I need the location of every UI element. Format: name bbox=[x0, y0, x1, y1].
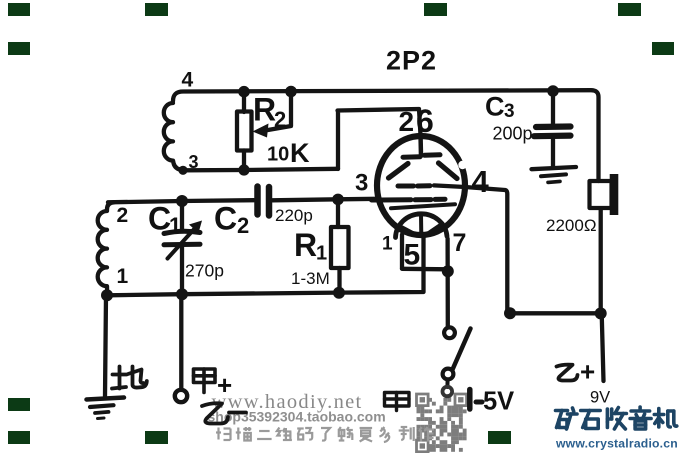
svg-text:3: 3 bbox=[189, 152, 199, 172]
label minus B dash bbox=[229, 411, 246, 415]
svg-text:www.crystalradio.cn: www.crystalradio.cn bbox=[555, 437, 678, 451]
node bus R1 bbox=[333, 287, 345, 299]
svg-text:2P2: 2P2 bbox=[386, 46, 437, 76]
svg-text:270p: 270p bbox=[185, 261, 224, 281]
wire filament connector bbox=[402, 267, 448, 272]
svg-text:3: 3 bbox=[355, 170, 368, 197]
switch top contact bbox=[444, 327, 455, 338]
tube envelope gap bbox=[458, 161, 466, 169]
tube 2P2 envelope bbox=[377, 136, 465, 235]
tube plate wing left bbox=[389, 164, 409, 179]
node coil L2 pin3 corner bbox=[178, 166, 187, 175]
wire R2 top lead bbox=[242, 92, 246, 113]
capacitor C3 plates bbox=[536, 123, 571, 130]
svg-text:1: 1 bbox=[169, 213, 181, 238]
node grid R1 bbox=[332, 194, 344, 206]
capacitor C1 trimmer arrow bbox=[168, 227, 197, 259]
capacitor C1 plates bbox=[164, 231, 200, 233]
resistor R1 body bbox=[331, 227, 349, 268]
brand char 石 bbox=[581, 411, 601, 429]
svg-text:200p: 200p bbox=[493, 124, 533, 144]
svg-text:C: C bbox=[148, 201, 171, 237]
switch bottom lead bbox=[445, 380, 449, 387]
svg-text:5: 5 bbox=[404, 239, 421, 272]
tube top electrode bar bbox=[403, 154, 420, 159]
wire grid line C2 to tube bbox=[273, 199, 378, 201]
svg-text:9V: 9V bbox=[590, 389, 610, 407]
wire B+ terminal lead bbox=[602, 314, 604, 382]
watermark char 维 bbox=[277, 428, 292, 441]
svg-text:220p: 220p bbox=[275, 206, 313, 225]
wire bottom of feedback loop bbox=[183, 169, 338, 171]
brand char 音 bbox=[630, 407, 651, 429]
wire bottom bus bbox=[107, 236, 424, 295]
watermark QR code bbox=[417, 394, 467, 452]
watermark char 制 bbox=[399, 427, 414, 441]
watermark char 作 bbox=[419, 427, 434, 442]
svg-text:2: 2 bbox=[117, 204, 129, 227]
watermark char 二 bbox=[257, 431, 272, 439]
watermark char 解 bbox=[339, 427, 353, 441]
svg-text:7: 7 bbox=[453, 229, 467, 257]
label di ground char bbox=[112, 367, 147, 389]
ground earth bars bbox=[87, 398, 125, 400]
svg-text:C: C bbox=[485, 92, 505, 122]
wire R1 top lead bbox=[336, 200, 340, 228]
wire plate pin4 out of tube bbox=[434, 185, 507, 313]
wire riser to tube top bbox=[338, 109, 421, 169]
svg-text:2: 2 bbox=[237, 213, 249, 238]
watermark char 更 bbox=[360, 428, 373, 442]
wire phone bottom lead bbox=[599, 209, 603, 314]
svg-text:1-3M: 1-3M bbox=[291, 269, 330, 288]
tube filament dome bbox=[396, 214, 448, 238]
node R2 bottom bbox=[238, 164, 249, 175]
resistor R2 body bbox=[237, 112, 252, 151]
coil L1 tuning winding bbox=[98, 202, 114, 294]
svg-text:1: 1 bbox=[382, 234, 393, 255]
tube grid row 1 dashes bbox=[398, 184, 414, 189]
wire bottom right bus bbox=[508, 311, 601, 315]
labels group bbox=[117, 46, 611, 416]
svg-text:3: 3 bbox=[504, 101, 515, 122]
phone 2200 thick bar bbox=[610, 174, 619, 215]
capacitor C3 bottom lead bbox=[551, 140, 555, 167]
hanzi group placeholder bbox=[112, 365, 578, 424]
R2 wiper arm from top bus bbox=[265, 92, 291, 131]
tube beam plate line bbox=[391, 204, 455, 208]
label yi B-plus char bbox=[557, 365, 578, 381]
node C3 top bbox=[547, 85, 559, 97]
watermark char 描 bbox=[236, 427, 252, 441]
svg-text:5V: 5V bbox=[483, 388, 514, 416]
node R2 top bbox=[238, 86, 250, 98]
wire ground lead bbox=[105, 295, 106, 396]
svg-text:R: R bbox=[294, 227, 317, 263]
watermark char 扫 bbox=[216, 428, 231, 441]
node filament switch bbox=[442, 265, 454, 277]
svg-text:C: C bbox=[214, 201, 237, 237]
battery terminal blob bbox=[443, 387, 453, 397]
node phone bus bbox=[595, 307, 607, 319]
tube top electrode lead bbox=[418, 134, 423, 156]
svg-text:2200Ω: 2200Ω bbox=[546, 216, 597, 235]
wire C1 bottom lead bbox=[180, 247, 184, 295]
svg-text:4: 4 bbox=[472, 164, 490, 199]
svg-text:K: K bbox=[290, 138, 310, 168]
wire switch riser bbox=[445, 239, 449, 327]
svg-text:4: 4 bbox=[182, 69, 194, 92]
switch bottom contact bbox=[443, 369, 454, 380]
watermark hanzi line bbox=[216, 427, 434, 442]
node bus ground bbox=[101, 289, 113, 301]
node bus C1 bbox=[176, 288, 188, 300]
watermark char 了 bbox=[321, 428, 330, 441]
node wiper top bbox=[285, 86, 297, 98]
wire R1 bottom lead bbox=[337, 268, 341, 292]
svg-text:2: 2 bbox=[399, 106, 415, 137]
label jia battery char bbox=[385, 393, 410, 411]
tube plate wing right bbox=[439, 163, 458, 179]
wire R2 bottom lead bbox=[242, 151, 246, 171]
switch lever bbox=[453, 329, 471, 370]
node tuned top C1 bbox=[176, 195, 188, 207]
coil L2 feedback winding bbox=[164, 103, 183, 170]
svg-text:10: 10 bbox=[267, 144, 289, 166]
capacitor C3 top lead bbox=[551, 91, 555, 124]
brand char 收 bbox=[607, 408, 626, 430]
svg-text:1: 1 bbox=[117, 265, 129, 288]
watermark char 码 bbox=[297, 428, 312, 440]
phone 2200 box bbox=[590, 181, 612, 208]
label jia A-plus char bbox=[194, 369, 216, 393]
capacitor C2 plates bbox=[254, 187, 261, 215]
ground C3 bars bbox=[532, 167, 577, 169]
R2 wiper arrowhead bbox=[253, 124, 269, 138]
terminal A+ circle bbox=[175, 390, 187, 402]
watermark char 多 bbox=[379, 427, 389, 442]
svg-text:R: R bbox=[253, 92, 276, 128]
capacitor C1 top lead bbox=[180, 201, 184, 230]
tube filament spokes bbox=[419, 215, 423, 237]
label yi B-minus char bbox=[202, 403, 228, 423]
wire A+ terminal lead bbox=[179, 295, 183, 390]
wire tube pin left lead bbox=[400, 235, 404, 269]
node plate bus bbox=[504, 307, 516, 319]
tube grid row 2 dashes bbox=[372, 197, 412, 202]
brand char 矿 bbox=[556, 408, 578, 429]
brand char 机 bbox=[654, 409, 677, 428]
svg-text:+: + bbox=[217, 370, 232, 400]
svg-text:6: 6 bbox=[416, 103, 434, 139]
svg-text:2: 2 bbox=[274, 107, 286, 132]
svg-text:+: + bbox=[580, 357, 595, 387]
svg-text:1: 1 bbox=[316, 243, 327, 265]
wire top bus from coil pin4 to right corner bbox=[173, 90, 599, 181]
wire tuned top from coil to C2 bbox=[108, 200, 254, 202]
